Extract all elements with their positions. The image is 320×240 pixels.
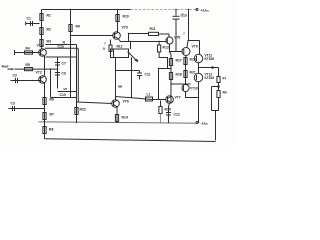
capacitor C9 xyxy=(55,72,60,74)
resistor R17 xyxy=(169,59,172,66)
svg-text:R9: R9 xyxy=(76,25,80,29)
resistor R15 hang xyxy=(160,101,162,107)
svg-text:VT9: VT9 xyxy=(192,45,198,49)
resistor R3 xyxy=(40,40,43,47)
wire cross driver xyxy=(159,68,172,70)
resistor R2 xyxy=(40,28,43,35)
wire driver column R17 xyxy=(170,52,172,104)
wire output mid xyxy=(198,63,200,74)
wire bottom return line xyxy=(45,139,216,142)
svg-text:a: a xyxy=(103,47,105,51)
wire inner right column xyxy=(77,48,79,102)
svg-text:6: 6 xyxy=(137,59,139,63)
svg-text:KT818: KT818 xyxy=(205,57,215,61)
svg-text:R18: R18 xyxy=(176,73,182,77)
svg-text:VT1: VT1 xyxy=(37,44,43,48)
svg-text:L1: L1 xyxy=(147,93,151,97)
wire VT9 emitter column xyxy=(185,56,188,85)
resistor R5 xyxy=(25,68,33,71)
resistor R13 xyxy=(158,42,160,46)
element L1 xyxy=(146,97,153,101)
resistor R22 xyxy=(75,108,78,115)
svg-text:R17: R17 xyxy=(176,59,182,63)
wire VT2 emitter column xyxy=(44,83,46,123)
wire inner top row xyxy=(45,47,78,49)
svg-text:aw: aw xyxy=(118,85,123,89)
resistor R1 xyxy=(40,14,43,21)
svg-text:R3: R3 xyxy=(47,40,51,44)
wire speaker branch xyxy=(212,86,219,88)
svg-text:KT819: KT819 xyxy=(205,76,215,80)
svg-text:C9: C9 xyxy=(62,72,66,76)
transistor VT11 output xyxy=(194,54,202,62)
wire cap column xyxy=(57,58,59,89)
capacitor C2 input xyxy=(11,80,41,82)
svg-text:R4: R4 xyxy=(26,47,30,51)
transistor VT6 xyxy=(112,100,120,108)
wire C10 row xyxy=(58,91,77,93)
resistor R6 xyxy=(43,98,46,105)
transistor VT1 xyxy=(39,49,47,57)
wire VT7 emitter to rail xyxy=(169,103,170,123)
svg-text:+Ucc: +Ucc xyxy=(201,8,210,13)
svg-text:R11: R11 xyxy=(150,27,156,31)
wire bottom negative rail xyxy=(39,122,197,123)
svg-text:R8: R8 xyxy=(49,128,53,132)
wire feedback run xyxy=(116,97,153,100)
svg-text:C10: C10 xyxy=(60,93,66,97)
wire mid cross xyxy=(116,70,140,72)
resistor R12a bias xyxy=(110,40,112,46)
resistor R8 below rail xyxy=(44,123,46,139)
transistor VT7 xyxy=(166,96,174,104)
svg-text:R14: R14 xyxy=(122,116,128,120)
wire VAS collector xyxy=(117,10,119,32)
resistor R18 xyxy=(169,73,172,80)
wire mid box top xyxy=(46,44,77,46)
wire pot lower leg xyxy=(131,58,133,99)
resistor R14 xyxy=(116,107,118,123)
wire VT1 base xyxy=(15,52,41,54)
svg-text:ur: ur xyxy=(64,87,68,91)
transistor VT8 xyxy=(166,37,173,44)
svg-text:R10: R10 xyxy=(123,15,129,19)
junction dots xyxy=(116,122,117,123)
svg-text:VT6: VT6 xyxy=(123,100,129,104)
wire VT8 emitter to VT9 base xyxy=(169,44,171,52)
wire VT12 emitter to rail xyxy=(198,82,200,123)
fuse Pr xyxy=(218,68,220,77)
svg-text:r: r xyxy=(184,32,186,36)
svg-text:-Ucc: -Ucc xyxy=(201,121,209,126)
svg-text:R22: R22 xyxy=(80,108,86,112)
wire R13 to lower net xyxy=(159,52,167,69)
wire load down xyxy=(218,98,220,111)
resistor Rn load xyxy=(217,91,220,98)
transistor VT10 xyxy=(182,84,189,91)
resistor R7 xyxy=(43,113,46,120)
svg-text:R15: R15 xyxy=(165,108,171,112)
wire output node xyxy=(199,67,219,69)
svg-text:C1: C1 xyxy=(27,17,31,21)
capacitor C11 xyxy=(137,72,142,74)
wire left input column vertical xyxy=(41,10,43,49)
svg-text:VT2: VT2 xyxy=(36,71,42,75)
svg-text:R21: R21 xyxy=(190,71,196,75)
resistor R4 xyxy=(25,51,33,54)
capacitor C7 xyxy=(55,62,60,64)
svg-text:VT8: VT8 xyxy=(174,36,180,40)
svg-text:Aud: Aud xyxy=(2,65,9,69)
wire bootstrap junction xyxy=(128,34,130,42)
wire emitter row xyxy=(46,56,77,58)
svg-text:Pr: Pr xyxy=(223,77,227,81)
svg-text:C3: C3 xyxy=(11,102,15,106)
svg-text:R2: R2 xyxy=(47,28,51,32)
svg-text:Rn: Rn xyxy=(223,91,228,95)
wire driver link xyxy=(171,83,191,85)
wire mid lower column xyxy=(115,58,117,100)
potentiometer wiper arrow xyxy=(128,52,138,62)
capacitor C1 stub xyxy=(26,23,40,25)
resistor R11 bootstrap xyxy=(149,32,159,35)
capacitor C12 xyxy=(166,112,171,114)
wire VT1-VT2 link xyxy=(44,56,46,76)
resistor R9 xyxy=(69,25,72,32)
resistor R10 xyxy=(116,15,119,22)
svg-text:R1: R1 xyxy=(47,14,51,18)
wire VAS emitter right xyxy=(119,39,167,42)
transistor VT2 xyxy=(39,76,47,84)
wire VAS base feed xyxy=(71,35,114,37)
svg-text:C12: C12 xyxy=(174,113,180,117)
svg-text:VT7: VT7 xyxy=(175,96,181,100)
wire top supply rail xyxy=(42,9,131,11)
resistor R20 xyxy=(184,58,187,65)
resistor R21 xyxy=(184,71,187,78)
wire box bottom xyxy=(51,97,77,99)
transistor VT5 xyxy=(113,32,121,40)
node load split xyxy=(218,83,220,91)
wire output collector xyxy=(188,10,190,41)
wire mid column x70 xyxy=(70,10,72,98)
node +Ucc terminal xyxy=(196,9,198,11)
svg-text:C11: C11 xyxy=(145,73,151,77)
wire base VT7 xyxy=(153,99,166,101)
wire mid box right xyxy=(76,45,78,123)
transistor VT12 output xyxy=(194,73,202,81)
potentiometer R12 box xyxy=(111,49,129,58)
svg-text:C2: C2 xyxy=(13,74,17,78)
transistor VT9 driver xyxy=(182,48,190,56)
wire VT9 collector up xyxy=(187,41,188,48)
svg-text:VT5: VT5 xyxy=(122,26,128,30)
svg-text:R13: R13 xyxy=(163,46,169,50)
node -Ucc terminal xyxy=(196,122,198,124)
svg-text:VT10: VT10 xyxy=(190,87,198,91)
capacitor C13 top xyxy=(175,10,177,16)
wire pot feed xyxy=(130,42,132,50)
capacitor C3 input low xyxy=(9,108,45,110)
svg-text:R5: R5 xyxy=(26,63,30,67)
svg-text:R7: R7 xyxy=(50,113,54,117)
wire VT10 emitter to output line xyxy=(186,92,199,98)
svg-text:r: r xyxy=(105,42,107,46)
wire base run to VT6 xyxy=(77,102,113,104)
svg-text:R12: R12 xyxy=(117,45,123,49)
wire input branch down xyxy=(50,69,52,97)
svg-text:C7: C7 xyxy=(62,62,66,66)
svg-text:R6: R6 xyxy=(50,98,54,102)
